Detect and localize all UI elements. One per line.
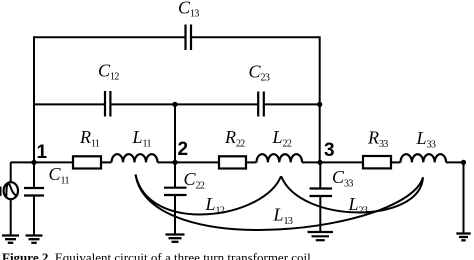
right corner junction — [461, 160, 466, 165]
wire mid rail right of C23 — [265, 103, 320, 105]
mutual inductance L23 arc — [281, 176, 423, 212]
ground under C22 — [166, 235, 185, 242]
node 2 junction — [172, 160, 177, 165]
svg-text:C33: C33 — [332, 167, 353, 190]
wire right vertical — [319, 36, 321, 162]
resistor R22 — [219, 156, 246, 168]
wire right vertical to ground — [463, 162, 465, 233]
wire source branch vertical — [10, 162, 12, 182]
left edge mark — [0, 187, 2, 197]
wire C33 to ground — [319, 197, 321, 231]
inductor L33 — [401, 154, 447, 162]
wire node1 to C11 — [33, 162, 35, 187]
inductor L22 — [257, 154, 303, 162]
capacitor C33 — [310, 189, 333, 197]
svg-text:L11: L11 — [132, 127, 152, 150]
svg-text:L22: L22 — [272, 127, 292, 150]
resistor R33 — [363, 156, 391, 168]
wire L11 to node2 to R22 — [158, 161, 220, 163]
svg-text:C11: C11 — [49, 164, 70, 187]
ground under source — [2, 236, 19, 243]
ground under C11 — [26, 236, 43, 243]
ground right — [456, 234, 470, 241]
wire mid rail between C12 and C23 — [111, 103, 257, 105]
capacitor C12 — [105, 91, 110, 117]
node 3 top junction — [317, 102, 322, 107]
svg-text:C23: C23 — [249, 62, 270, 84]
svg-text:L23: L23 — [348, 194, 368, 217]
svg-text:R22: R22 — [224, 127, 245, 150]
svg-text:1: 1 — [37, 142, 48, 163]
svg-text:L13: L13 — [273, 205, 293, 228]
wire C22 to ground — [174, 196, 176, 234]
svg-text:Figure 2. Equivalent circuit o: Figure 2. Equivalent circuit of a three … — [2, 250, 314, 260]
capacitor C22 — [164, 188, 187, 195]
node 1 junction — [31, 160, 36, 165]
wire node3 to C33 — [319, 162, 321, 188]
svg-text:L12: L12 — [205, 194, 225, 217]
svg-text:L33: L33 — [416, 128, 436, 151]
wire mid rail left of C12 — [34, 103, 104, 105]
svg-text:R11: R11 — [79, 127, 100, 150]
wire left vertical — [33, 36, 35, 162]
wire top rail left of C13 — [34, 36, 185, 38]
source V1 circle — [4, 182, 18, 199]
wire L33 to right corner — [446, 161, 464, 163]
wire R22 to L22 — [246, 161, 257, 163]
wire C11 to ground — [33, 197, 35, 236]
capacitor C13 — [186, 25, 192, 51]
svg-text:C13: C13 — [178, 0, 199, 20]
wire source to ground — [10, 200, 12, 235]
svg-text:C12: C12 — [98, 61, 119, 83]
wire top rail right of C13 — [192, 36, 320, 38]
ground under C33 — [308, 232, 334, 240]
svg-text:2: 2 — [178, 139, 189, 160]
svg-text:R33: R33 — [367, 127, 388, 150]
wire R33 to L33 — [391, 161, 401, 163]
svg-text:3: 3 — [324, 140, 335, 161]
capacitor C23 — [258, 92, 264, 117]
source waveform — [6, 184, 17, 197]
node 3 junction — [317, 160, 322, 165]
wire R11 to L11 — [101, 161, 112, 163]
wire main line node1 to R11 — [11, 161, 74, 163]
capacitor C11 — [24, 188, 44, 196]
wire L22 to node3 to R33 — [302, 161, 363, 163]
inductor L11 — [112, 154, 158, 162]
svg-text:C22: C22 — [184, 169, 205, 192]
resistor R11 — [73, 156, 101, 168]
mutual inductance L12 arc — [136, 175, 282, 215]
mutual inductance L13 arc — [136, 175, 424, 230]
wire node2 vertical — [174, 104, 176, 187]
node 2 top junction — [172, 102, 177, 107]
